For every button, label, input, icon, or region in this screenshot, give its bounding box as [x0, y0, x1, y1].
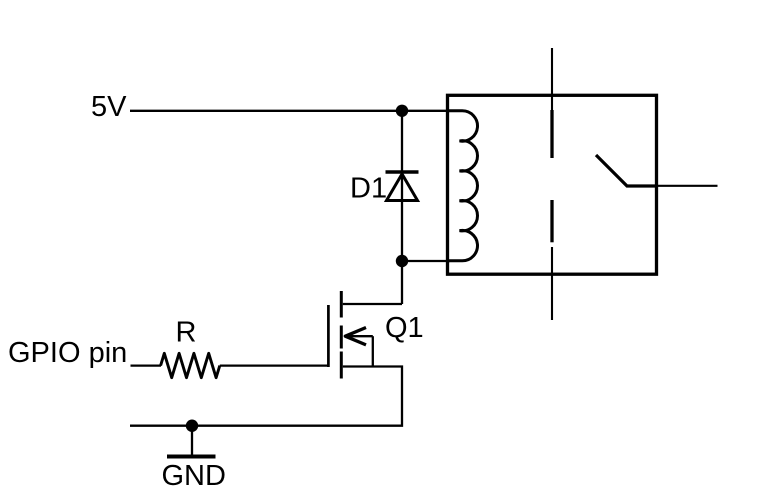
relay box	[448, 95, 657, 274]
junction node: coil bottom / drain	[396, 255, 408, 267]
wire 5V rail	[130, 110, 449, 112]
transistor Q1 body arrow head	[345, 328, 366, 345]
transistor Q1 source contact bar	[340, 352, 343, 379]
svg-text:D1: D1	[350, 173, 387, 205]
relay armature dash upper	[550, 110, 553, 158]
junction node: ground	[186, 420, 198, 432]
svg-text:R: R	[176, 317, 197, 349]
diode D1 cathode bar	[386, 170, 419, 174]
wire: source down to ground rail	[130, 367, 402, 426]
relay coil	[448, 111, 478, 261]
transistor Q1 gate bar	[327, 305, 330, 367]
wire: node to relay coil bottom	[402, 260, 450, 262]
ground bar	[167, 455, 216, 459]
junction node: 5V / coil top / diode cathode	[396, 105, 408, 117]
svg-text:Q1: Q1	[385, 312, 424, 344]
transistor Q1 body contact bar	[340, 326, 343, 349]
svg-text:5V: 5V	[91, 91, 127, 123]
wire vertical: diode branch down to drain	[401, 111, 403, 304]
wire: body to source	[372, 336, 374, 366]
relay switch contact lever	[596, 155, 657, 186]
svg-text:GPIO pin: GPIO pin	[8, 337, 127, 369]
transistor Q1 body arrow shaft	[347, 335, 373, 337]
wire: switch output	[657, 185, 718, 187]
wire: relay top pin stub	[551, 48, 553, 110]
wire: drain	[343, 303, 402, 305]
relay armature dash lower	[550, 200, 553, 242]
transistor Q1 drain contact bar	[340, 291, 343, 318]
wire: resistor to gate	[220, 364, 329, 366]
svg-text:GND: GND	[162, 460, 226, 492]
resistor R	[161, 353, 220, 377]
diode D1 triangle	[387, 174, 418, 201]
wire: GPIO lead	[131, 364, 162, 366]
ground stub	[191, 426, 193, 455]
wire: relay bottom pin stub	[551, 247, 553, 320]
